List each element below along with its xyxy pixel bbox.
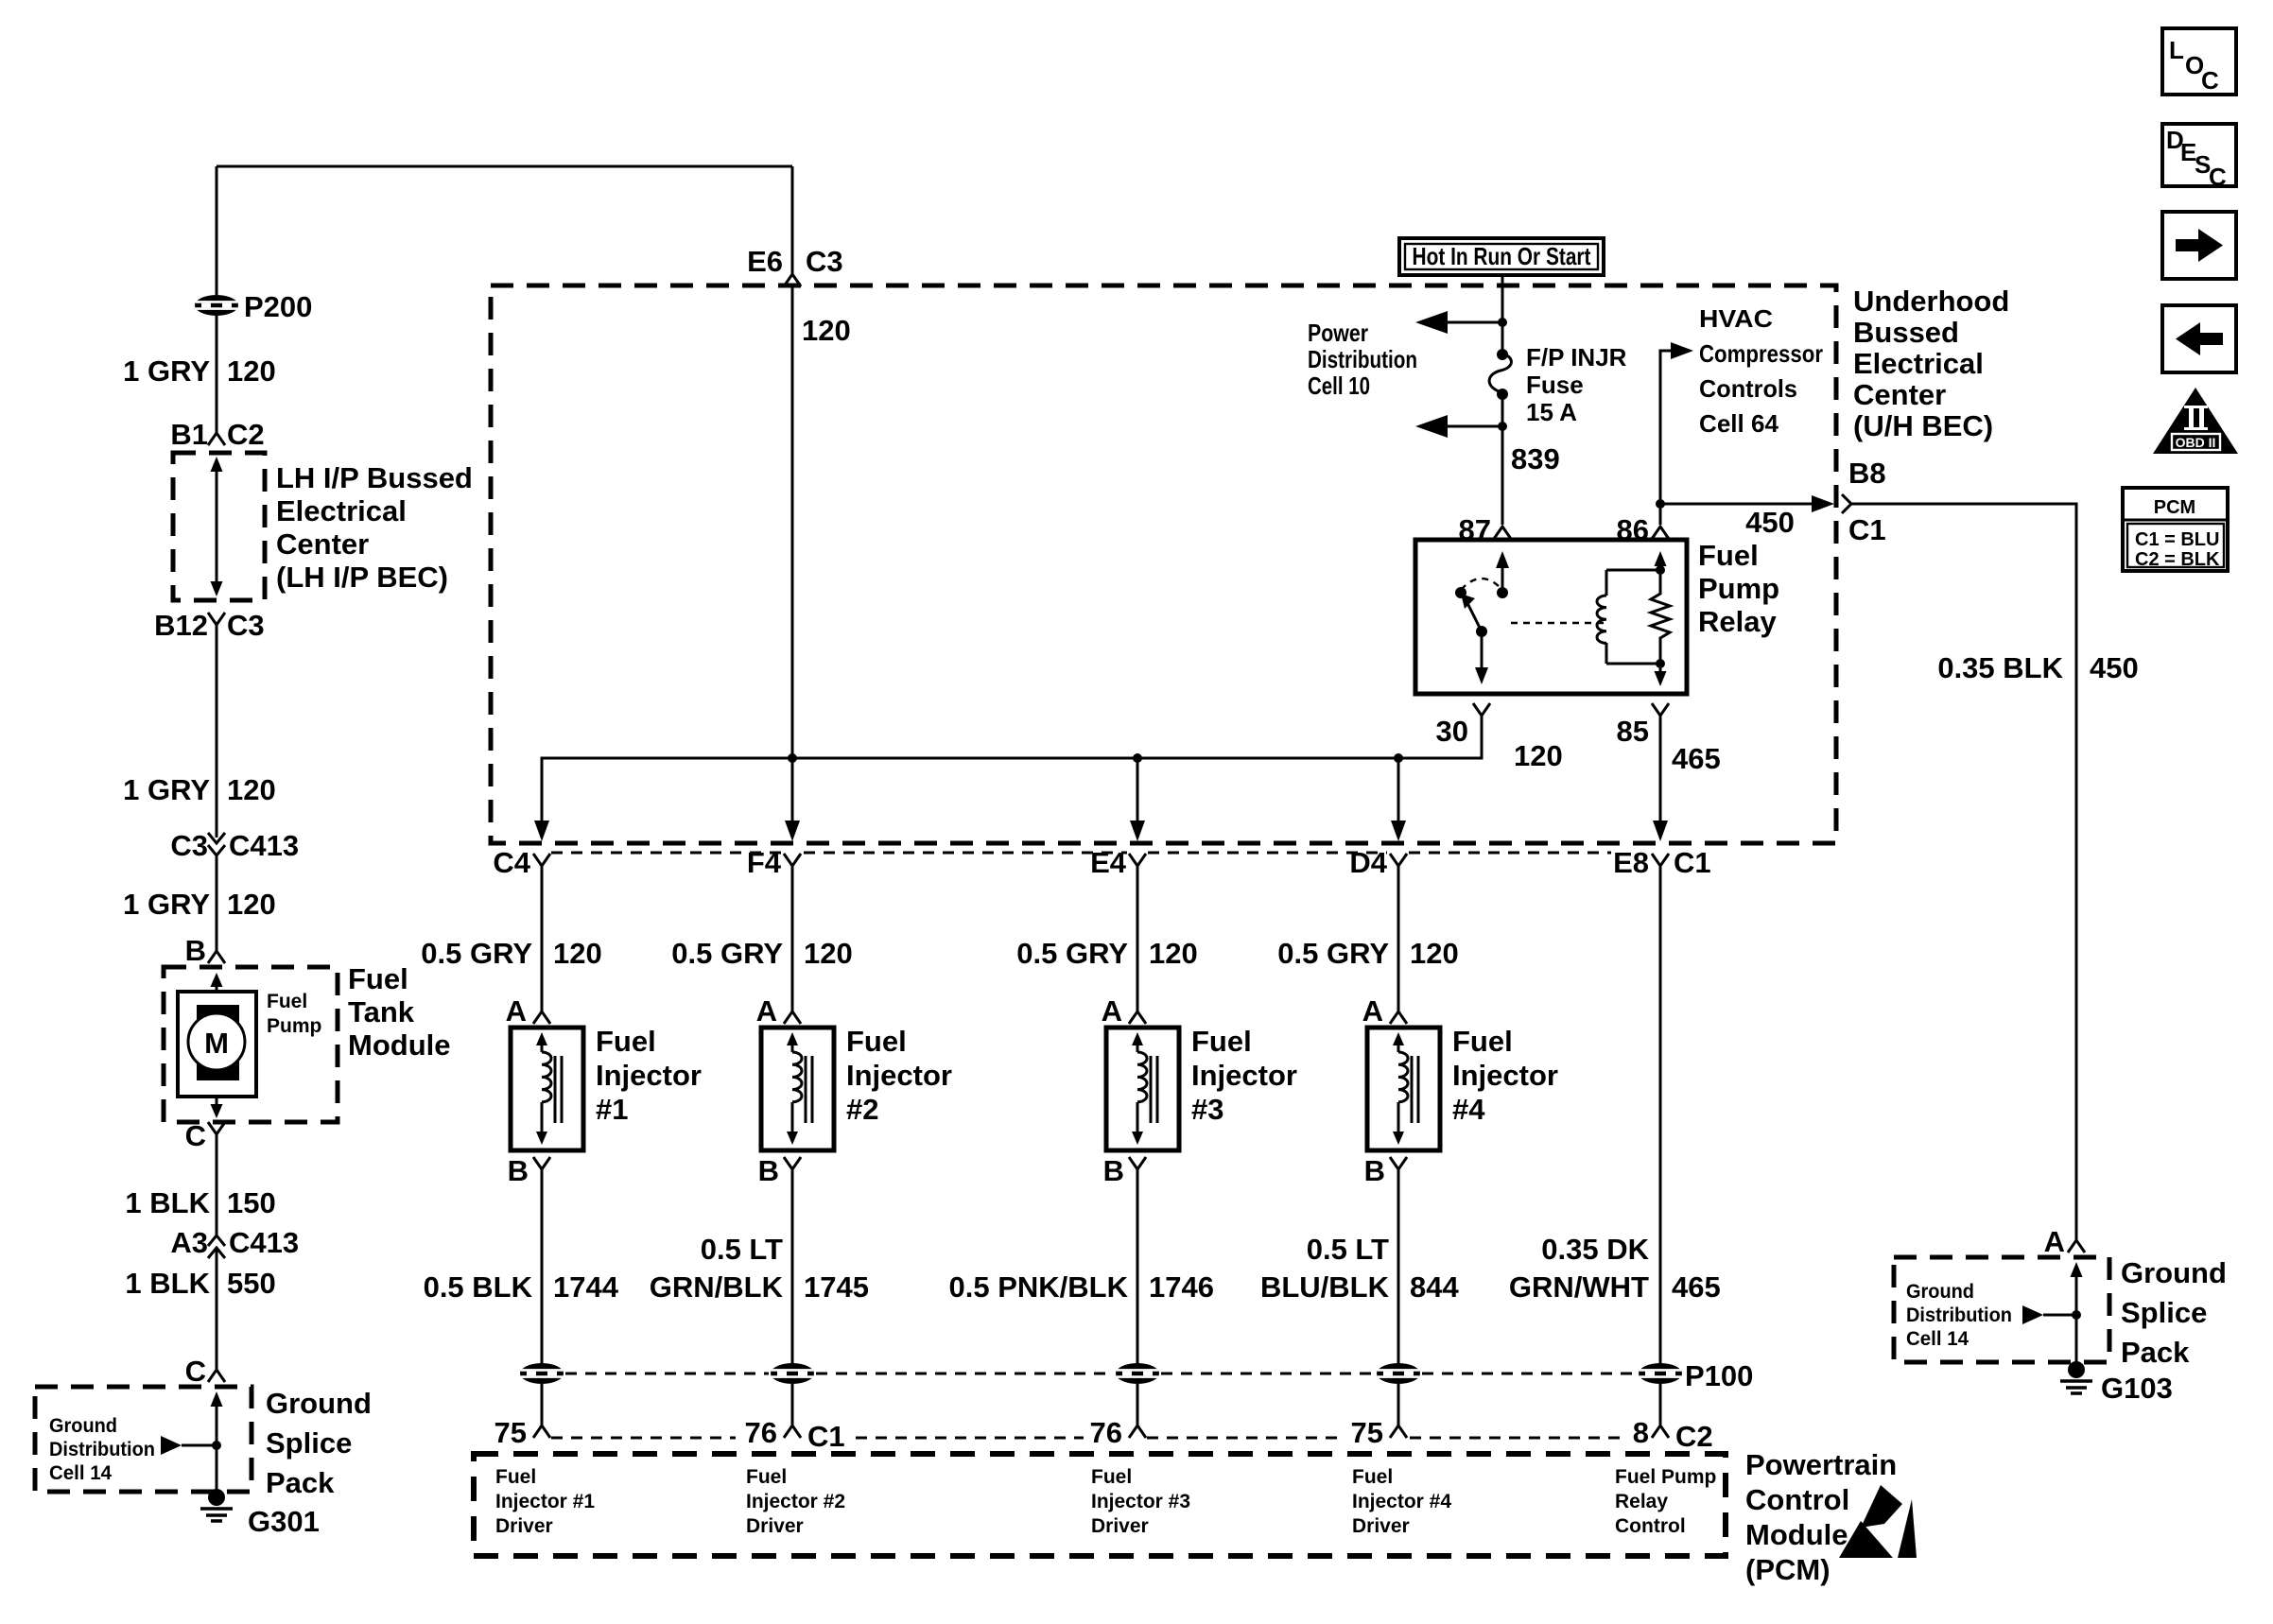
connector pin A injector 2 [756, 994, 801, 1028]
wire: 120 feed to injector 3 [1136, 866, 1139, 1011]
connector D4 [1349, 846, 1407, 879]
svg-text:76: 76 [745, 1416, 777, 1449]
wire: E4 branch [1136, 758, 1139, 832]
svg-text:550: 550 [227, 1267, 276, 1300]
connector pin 85 [1617, 703, 1669, 748]
svg-text:15 A: 15 A [1526, 398, 1577, 426]
svg-text:0.5 GRY: 0.5 GRY [421, 937, 532, 970]
wire: injector 2 driver circuit [791, 1169, 794, 1365]
fuel injector #2 [761, 1028, 834, 1150]
svg-text:C2: C2 [1675, 1420, 1713, 1453]
grommet P100 column 4 [1377, 1363, 1420, 1384]
svg-text:0.5 GRY: 0.5 GRY [671, 937, 783, 970]
svg-text:E6: E6 [747, 245, 783, 278]
wire: pin 85 circuit 465 [1653, 716, 1721, 841]
svg-text:G301: G301 [248, 1505, 320, 1538]
wire: HVAC compressor branch [1660, 342, 1693, 504]
svg-text:(LH I/P BEC): (LH I/P BEC) [276, 561, 448, 594]
svg-text:8: 8 [1633, 1416, 1649, 1449]
icon DESC [2162, 124, 2236, 191]
svg-text:450: 450 [1745, 506, 1795, 539]
arrow from ground distribution to splice [161, 1436, 221, 1455]
svg-text:A: A [1362, 994, 1383, 1028]
svg-text:C: C [2201, 66, 2219, 95]
svg-text:465: 465 [1672, 742, 1721, 775]
svg-text:30: 30 [1436, 715, 1468, 748]
wire: injector 4 driver circuit [1397, 1169, 1400, 1365]
label PCM driver at x=1154 [1091, 1466, 1190, 1537]
label 0.5 GRY 120 (injector 4) [1277, 937, 1458, 970]
svg-text:120: 120 [227, 888, 276, 921]
PCM pin 75 (injector 1) [495, 1416, 550, 1449]
label 0.5 GRY 120 (injector 1) [421, 937, 601, 970]
svg-text:B: B [1364, 1154, 1385, 1187]
svg-text:M: M [204, 1027, 229, 1060]
fuel pump motor M1 [178, 973, 256, 1118]
svg-text:OBD II: OBD II [2176, 435, 2216, 450]
fuel injector #1 [511, 1028, 583, 1150]
connector pin 30 [1436, 703, 1490, 748]
ground G301 [200, 1489, 320, 1538]
svg-text:Fuel Pump: Fuel Pump [1615, 1466, 1716, 1488]
label Fuel Injector #4 [1452, 1025, 1558, 1126]
fuel tank module box [164, 967, 338, 1122]
LH I/P Bussed Electrical Center box [173, 453, 265, 600]
wire: feed down to E6/C3 [791, 166, 794, 274]
svg-text:75: 75 [495, 1416, 527, 1449]
hot in run or start tag [1399, 238, 1604, 275]
svg-text:1 BLK: 1 BLK [125, 1267, 210, 1300]
svg-text:1744: 1744 [553, 1270, 619, 1304]
wire: P100 to pin 8 [1659, 1384, 1662, 1425]
grommet dashed line P100 [565, 1373, 1637, 1375]
label Powertrain Control Module (PCM) [1745, 1448, 1897, 1586]
svg-text:Injector #1: Injector #1 [495, 1491, 595, 1512]
connector pin A injector 3 [1102, 994, 1146, 1028]
arrow from ground distribution (right) [2022, 1305, 2081, 1324]
connector E8 / C1 [1613, 846, 1711, 879]
svg-text:120: 120 [1514, 739, 1563, 772]
wire: injector 1 driver circuit [541, 1169, 544, 1365]
svg-text:A: A [506, 994, 527, 1028]
svg-text:#2: #2 [846, 1093, 878, 1126]
ESD sensitivity symbol [1839, 1485, 1917, 1558]
svg-text:C: C [2209, 163, 2227, 191]
svg-text:Powertrain: Powertrain [1745, 1448, 1897, 1481]
svg-text:Hot In Run Or Start: Hot In Run Or Start [1413, 242, 1591, 270]
svg-text:0.5 BLK: 0.5 BLK [424, 1270, 533, 1304]
label PCM driver at x=1430 [1352, 1466, 1451, 1537]
label 0.35 DK GRN/WHT 465 [1509, 1233, 1721, 1304]
svg-text:G103: G103 [2101, 1372, 2173, 1405]
fuel injector #3 [1106, 1028, 1179, 1150]
wire: C3 down to C413 [216, 625, 218, 838]
svg-text:1746: 1746 [1149, 1270, 1214, 1304]
svg-text:Distribution: Distribution [1308, 345, 1417, 373]
svg-text:Ground: Ground [266, 1387, 372, 1420]
wire: 120 feed to injector 1 [541, 866, 544, 1011]
svg-text:Control: Control [1745, 1483, 1849, 1516]
connector pin C fuel tank module [185, 1119, 225, 1152]
connector pin B fuel tank module [185, 934, 225, 967]
svg-text:1 GRY: 1 GRY [123, 354, 210, 388]
svg-text:Pump: Pump [267, 1015, 321, 1037]
connector E6 / C3 [747, 245, 843, 286]
svg-text:Center: Center [276, 527, 369, 561]
svg-text:Electrical: Electrical [276, 494, 407, 527]
wire: circuit 450 to B8 [1660, 494, 1851, 539]
label Power Distribution Cell 10 [1308, 319, 1417, 400]
svg-text:B12: B12 [154, 609, 208, 642]
label Fuel Pump Relay [1698, 539, 1779, 638]
wire: injector 3 driver circuit [1136, 1169, 1139, 1365]
label Fuel Tank Module [348, 962, 451, 1062]
svg-text:0.5 GRY: 0.5 GRY [1016, 937, 1128, 970]
grommet P100 column 1 [520, 1363, 564, 1384]
splice P200 [195, 290, 312, 323]
svg-text:B: B [1103, 1154, 1124, 1187]
label 1 GRY 120 (mid) [123, 773, 276, 806]
svg-text:C2 = BLK: C2 = BLK [2135, 549, 2220, 570]
label wire colour injector 3 [949, 1270, 1214, 1304]
label 1 GRY 120 (upper) [123, 354, 276, 388]
wire: bus 120 to injectors [542, 716, 1482, 832]
label wire colour injector 1 [424, 1270, 619, 1304]
svg-text:B8: B8 [1848, 457, 1886, 490]
svg-text:#3: #3 [1191, 1093, 1223, 1126]
svg-text:Module: Module [1745, 1518, 1848, 1551]
svg-text:85: 85 [1617, 715, 1649, 748]
wire: battery feed top run [217, 165, 792, 168]
svg-text:844: 844 [1410, 1270, 1459, 1304]
svg-text:Injector: Injector [1191, 1059, 1297, 1092]
svg-text:Control: Control [1615, 1515, 1686, 1537]
relay switch [1455, 551, 1509, 684]
wire: to PCM pin column 3 [1136, 1384, 1139, 1425]
svg-text:Fuel: Fuel [1091, 1466, 1132, 1488]
svg-text:C: C [185, 1119, 206, 1152]
PCM pin 75 (injector 4) [1351, 1416, 1407, 1449]
svg-text:C1: C1 [807, 1420, 845, 1453]
connector pin B injector 3 [1103, 1154, 1146, 1187]
svg-text:1 GRY: 1 GRY [123, 888, 210, 921]
label HVAC Compressor Controls Cell 64 [1699, 304, 1823, 438]
svg-text:B: B [758, 1154, 779, 1187]
wire: fuse to relay pin 87 [1498, 394, 1507, 525]
label PCM driver at x=1708 [1615, 1466, 1716, 1537]
svg-text:120: 120 [804, 937, 853, 970]
svg-text:(U/H BEC): (U/H BEC) [1853, 409, 1993, 442]
svg-text:#1: #1 [596, 1093, 628, 1126]
svg-text:P100: P100 [1685, 1359, 1753, 1392]
connector E4 [1090, 846, 1146, 879]
svg-text:Bussed: Bussed [1853, 316, 1959, 349]
svg-text:Compressor: Compressor [1699, 339, 1823, 368]
svg-text:PCM: PCM [2154, 497, 2195, 518]
svg-text:120: 120 [227, 773, 276, 806]
svg-text:465: 465 [1672, 1270, 1721, 1304]
relay coil link (dashed) [1511, 622, 1604, 624]
wire: pin 86 to HVAC/450 junction [1656, 499, 1665, 525]
wire: to PCM pin column 1 [541, 1384, 544, 1425]
svg-text:120: 120 [1149, 937, 1198, 970]
wire: 450 to ground splice (right) [1851, 504, 2076, 1240]
powertrain control module box [474, 1454, 1726, 1556]
svg-text:D4: D4 [1349, 846, 1387, 879]
svg-text:76: 76 [1090, 1416, 1122, 1449]
label Fuel Injector #3 [1191, 1025, 1297, 1126]
svg-text:BLU/BLK: BLU/BLK [1260, 1270, 1390, 1304]
wire: left feed down to splice P200 [216, 166, 218, 295]
label Ground Splice Pack (left) [266, 1387, 372, 1499]
wire: C413 to fuel tank module [216, 855, 218, 951]
connector dashed line below BEC [551, 852, 1611, 855]
label Fuel Pump [267, 991, 321, 1037]
svg-text:Distribution: Distribution [1906, 1304, 2012, 1326]
svg-text:B: B [508, 1154, 529, 1187]
svg-text:C3: C3 [170, 829, 208, 862]
label wire colour injector 2 [650, 1233, 869, 1304]
svg-text:Pack: Pack [266, 1466, 335, 1499]
ground splice pack box (left) [35, 1387, 252, 1497]
relay resistor [1651, 570, 1670, 686]
svg-text:Underhood: Underhood [1853, 285, 2009, 318]
svg-text:Fuel: Fuel [495, 1466, 536, 1488]
connector pin B injector 2 [758, 1154, 801, 1187]
svg-text:Ground: Ground [1906, 1281, 1974, 1303]
svg-text:C: C [185, 1355, 206, 1388]
wire: to PCM pin column 4 [1397, 1384, 1400, 1425]
fuel pump relay box [1415, 540, 1687, 694]
PCM pin 76 C1 (injector 2) [745, 1416, 845, 1453]
svg-text:C3: C3 [227, 609, 265, 642]
svg-text:0.5 LT: 0.5 LT [701, 1233, 783, 1266]
svg-text:E4: E4 [1090, 846, 1127, 879]
svg-text:Fuel: Fuel [1191, 1025, 1252, 1058]
label LH I/P BEC [276, 461, 473, 594]
relay coil [1597, 551, 1666, 668]
connector pin C ground splice pack [185, 1355, 225, 1388]
PCM pin dashed line [551, 1437, 1624, 1440]
label Underhood BEC [1853, 285, 2009, 442]
icon arrow left [2162, 305, 2236, 372]
svg-text:LH I/P Bussed: LH I/P Bussed [276, 461, 473, 494]
label F/P INJR Fuse 15 A [1526, 343, 1627, 426]
grommet P100 (relay column) [1639, 1359, 1753, 1392]
svg-text:Driver: Driver [495, 1515, 553, 1537]
svg-text:C413: C413 [229, 1226, 299, 1259]
label PCM driver at x=789 [746, 1466, 845, 1537]
connector C3 / C413 [170, 829, 299, 862]
label 1 GRY 120 (lower) [123, 888, 276, 921]
label Ground Distribution Cell 14 (left) [49, 1415, 155, 1484]
svg-text:Fuel: Fuel [267, 991, 307, 1012]
label 0.35 BLK 450 [1937, 651, 2138, 684]
exit arrows at BEC bottom [534, 821, 1406, 841]
label 0.5 GRY 120 (injector 3) [1016, 937, 1197, 970]
connector B12 / C3 [154, 609, 265, 642]
svg-text:Electrical: Electrical [1853, 347, 1984, 380]
svg-text:A: A [756, 994, 777, 1028]
svg-text:Injector: Injector [596, 1059, 702, 1092]
grommet P100 column 3 [1116, 1363, 1159, 1384]
svg-text:F/P INJR: F/P INJR [1526, 343, 1627, 371]
svg-text:#4: #4 [1452, 1093, 1485, 1126]
PCM pin 76 (injector 3) [1090, 1416, 1146, 1449]
svg-text:0.35 BLK: 0.35 BLK [1937, 651, 2063, 684]
svg-text:C3: C3 [806, 245, 843, 278]
svg-text:Injector: Injector [1452, 1059, 1558, 1092]
svg-text:0.5 LT: 0.5 LT [1307, 1233, 1389, 1266]
svg-text:GRN/WHT: GRN/WHT [1509, 1270, 1649, 1304]
PCM connector legend [2123, 488, 2228, 571]
label 1 BLK 550 [125, 1267, 275, 1300]
svg-text:150: 150 [227, 1186, 276, 1219]
svg-text:Controls: Controls [1699, 374, 1797, 403]
svg-text:Injector #2: Injector #2 [746, 1491, 845, 1512]
svg-text:B: B [185, 934, 206, 967]
svg-text:A: A [2044, 1225, 2065, 1258]
svg-text:E8: E8 [1613, 846, 1649, 879]
svg-text:Injector: Injector [846, 1059, 952, 1092]
svg-text:0.35 DK: 0.35 DK [1541, 1233, 1649, 1266]
label PCM driver at x=524 [495, 1466, 595, 1537]
svg-text:F4: F4 [747, 846, 782, 879]
svg-text:Fuel: Fuel [746, 1466, 787, 1488]
connector pin 87 [1459, 513, 1511, 546]
svg-text:1 GRY: 1 GRY [123, 773, 210, 806]
svg-text:75: 75 [1351, 1416, 1383, 1449]
wire: D4 branch [1397, 758, 1400, 832]
connector pin A injector 4 [1362, 994, 1407, 1028]
svg-text:L: L [2169, 36, 2184, 64]
svg-text:Fuel: Fuel [846, 1025, 907, 1058]
svg-text:Injector #3: Injector #3 [1091, 1491, 1190, 1512]
label Ground Splice Pack (right) [2121, 1256, 2227, 1369]
svg-text:Ground: Ground [49, 1415, 117, 1437]
svg-text:B1: B1 [170, 418, 208, 451]
svg-text:0.5 GRY: 0.5 GRY [1277, 937, 1389, 970]
svg-text:C4: C4 [493, 846, 530, 879]
svg-text:120: 120 [553, 937, 602, 970]
svg-text:Cell 10: Cell 10 [1308, 371, 1370, 400]
ground splice pack box (right) [1894, 1257, 2109, 1370]
svg-text:A: A [1102, 994, 1122, 1028]
connector B8 / C1 [1848, 457, 1886, 546]
connector F4 [747, 846, 801, 879]
underhood bussed electrical center box [491, 285, 1836, 843]
connector C4 [493, 846, 550, 879]
label Ground Distribution Cell 14 (right) [1906, 1281, 2012, 1350]
icon arrow right [2162, 212, 2236, 279]
svg-text:A3: A3 [170, 1226, 208, 1259]
svg-text:Distribution: Distribution [49, 1439, 155, 1460]
svg-text:Fuel: Fuel [1452, 1025, 1513, 1058]
svg-text:Tank: Tank [348, 995, 415, 1028]
svg-text:Fuel: Fuel [1352, 1466, 1393, 1488]
svg-text:Center: Center [1853, 378, 1946, 411]
svg-text:Ground: Ground [2121, 1256, 2227, 1289]
icon LOC [2162, 28, 2236, 95]
svg-text:Relay: Relay [1615, 1491, 1668, 1512]
svg-text:Module: Module [348, 1028, 451, 1062]
svg-text:C1: C1 [1674, 846, 1711, 879]
connector B1 / C2 [170, 418, 264, 451]
ground G103 [2060, 1361, 2173, 1405]
svg-text:1 BLK: 1 BLK [125, 1186, 210, 1219]
wire: fuel pump ground lead [216, 1134, 218, 1235]
connector A3 / C413 [170, 1226, 299, 1259]
svg-text:Cell 14: Cell 14 [49, 1462, 112, 1484]
svg-text:(PCM): (PCM) [1745, 1553, 1831, 1586]
svg-text:Pump: Pump [1698, 572, 1779, 605]
connector pin B injector 1 [508, 1154, 550, 1187]
wire: to PCM pin column 2 [791, 1384, 794, 1425]
icon OBD II triangle [2153, 388, 2238, 454]
svg-text:120: 120 [227, 354, 276, 388]
fuel injector #4 [1367, 1028, 1440, 1150]
label Fuel Injector #2 [846, 1025, 952, 1126]
svg-text:839: 839 [1511, 442, 1560, 475]
svg-text:Cell 64: Cell 64 [1699, 409, 1779, 438]
svg-text:120: 120 [802, 314, 851, 347]
svg-text:C1 = BLU: C1 = BLU [2135, 529, 2219, 550]
svg-text:Cell 14: Cell 14 [1906, 1328, 1969, 1350]
connector pin A ground splice (right) [2044, 1225, 2085, 1258]
svg-text:Fuel: Fuel [596, 1025, 656, 1058]
svg-text:Relay: Relay [1698, 605, 1777, 638]
svg-text:Injector #4: Injector #4 [1352, 1491, 1451, 1512]
svg-text:GRN/BLK: GRN/BLK [650, 1270, 784, 1304]
svg-text:Power: Power [1308, 319, 1368, 347]
wire: hot feed to fuse [1498, 275, 1507, 354]
svg-text:Splice: Splice [2121, 1296, 2207, 1329]
svg-text:0.5 PNK/BLK: 0.5 PNK/BLK [949, 1270, 1129, 1304]
svg-text:Splice: Splice [266, 1426, 352, 1460]
svg-text:120: 120 [1410, 937, 1459, 970]
wire: circuit 120 inside BEC [792, 286, 851, 832]
svg-text:450: 450 [2090, 651, 2139, 684]
svg-text:Pack: Pack [2121, 1336, 2190, 1369]
svg-text:C1: C1 [1848, 513, 1886, 546]
label wire colour injector 4 [1260, 1233, 1460, 1304]
connector pin A injector 1 [506, 994, 550, 1028]
svg-text:Driver: Driver [1091, 1515, 1149, 1537]
svg-text:C413: C413 [229, 829, 299, 862]
svg-text:HVAC: HVAC [1699, 304, 1773, 333]
arrow to power distribution (lower) [1415, 415, 1502, 438]
PCM pin 8 C2 (relay control) [1633, 1416, 1713, 1453]
wire: P200 to connector C2 [216, 316, 218, 433]
arrow to power distribution (upper) [1415, 311, 1502, 334]
connector pin 86 [1617, 513, 1669, 546]
label 1 BLK 150 [125, 1186, 275, 1219]
fuse F/P INJR [1489, 349, 1511, 400]
svg-text:P200: P200 [244, 290, 312, 323]
label 0.5 GRY 120 (injector 2) [671, 937, 852, 970]
label Fuel Injector #1 [596, 1025, 702, 1126]
svg-text:Fuse: Fuse [1526, 371, 1584, 399]
svg-text:Driver: Driver [746, 1515, 804, 1537]
connector pin B injector 4 [1364, 1154, 1407, 1187]
svg-text:Driver: Driver [1352, 1515, 1410, 1537]
wire: 465 to PCM [1659, 866, 1662, 1365]
wire: 120 feed to injector 2 [791, 866, 794, 1011]
svg-text:1745: 1745 [804, 1270, 869, 1304]
grommet P100 column 2 [771, 1363, 814, 1384]
wire: C413 to ground splice [216, 1248, 218, 1370]
svg-text:C2: C2 [227, 418, 265, 451]
